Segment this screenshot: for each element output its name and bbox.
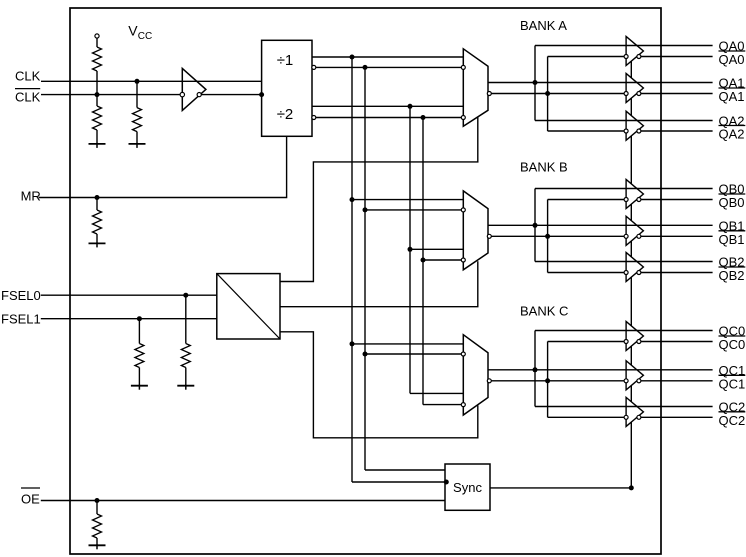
mux BANK A — [463, 49, 488, 127]
node Sync in2 — [444, 480, 449, 485]
svg-text:FSEL0: FSEL0 — [1, 288, 41, 303]
divider block U1 (div1 / div2) — [262, 40, 312, 136]
output buffer QB0 — [626, 179, 643, 208]
wire QB2 complement branch — [548, 272, 713, 274]
wire bank A comp branch vertical — [547, 57, 549, 132]
label QA0 — [719, 39, 745, 54]
wire QB1 complement (mux B output comp) — [488, 235, 713, 237]
buffer QA1 inversion bubbles — [624, 92, 641, 96]
node CLKb pull junction — [95, 92, 100, 97]
node CLK pull junction — [135, 79, 140, 84]
svg-text:BANK C: BANK C — [520, 304, 568, 319]
node bank C comp branch — [545, 378, 550, 383]
resistor: pull-down on MR — [93, 198, 102, 244]
label QB2 bar — [719, 267, 746, 283]
svg-text:QC0: QC0 — [719, 337, 746, 352]
node div2T branch — [408, 104, 413, 109]
wire QC1 complement (mux C output comp) — [488, 380, 713, 382]
wire CLK input line — [41, 80, 262, 82]
label BANK C — [520, 304, 568, 319]
label QC1 — [719, 363, 746, 378]
svg-text:CC: CC — [138, 31, 152, 42]
node bank A true branch — [533, 80, 538, 85]
node mux C in2 tap — [363, 352, 368, 357]
wire QB0 complement branch — [548, 199, 713, 201]
wire bank A true branch vertical — [534, 46, 536, 121]
label QC2 bar — [719, 412, 746, 428]
wire bank B select from decoder — [280, 261, 478, 306]
resistor: pull-down on CLK — [133, 81, 142, 144]
wire QB2 true branch — [535, 261, 713, 263]
wire QA2 true branch — [535, 120, 713, 122]
node bank C true branch — [533, 367, 538, 372]
label QA1 bar — [719, 88, 746, 104]
mux B inverted output bubble — [487, 234, 491, 238]
wire bank B true branch vertical — [534, 189, 536, 262]
wire div1 comp distribution: to mux A, mux B, mux C, Sync — [316, 67, 461, 470]
wire OE input line to Sync — [41, 500, 445, 502]
node FSEL1 pull junction — [137, 316, 142, 321]
label FSEL1 — [1, 312, 41, 327]
wire QA0 true branch — [535, 45, 713, 47]
wire QA2 complement branch — [548, 130, 713, 132]
svg-text:QC2: QC2 — [719, 413, 746, 428]
wire FSEL1 input line — [41, 318, 217, 320]
svg-text:OE: OE — [21, 492, 40, 507]
node mux B in4 tap — [421, 258, 426, 263]
Vcc pull-up terminal circle — [95, 34, 99, 38]
label CLK bar — [15, 89, 41, 105]
output buffer QA1 — [626, 73, 643, 102]
svg-text:BANK B: BANK B — [520, 160, 568, 175]
buffer QA2 inversion bubbles — [624, 129, 641, 133]
node OE pull junction — [95, 498, 100, 503]
receiver input inversion bubble — [180, 92, 184, 96]
output buffer QB1 — [626, 216, 643, 245]
node bank B true branch — [533, 223, 538, 228]
mux BANK C — [463, 335, 488, 415]
resistor: pull-down on FSEL0 — [181, 295, 190, 386]
wire QB1 true (mux B output) — [488, 224, 713, 226]
buffer QC2 inversion bubbles — [624, 415, 641, 419]
buffer QB1 inversion bubbles — [624, 234, 641, 238]
label QB1 — [719, 218, 745, 233]
output buffer QB2 — [626, 252, 643, 281]
label QA2 — [719, 114, 745, 129]
wire QA0 complement branch — [548, 56, 713, 58]
ground — [89, 544, 106, 549]
node bank B comp branch — [545, 234, 550, 239]
wire div2 true distribution: to mux A, mux B, mux C — [312, 106, 463, 393]
output buffer QA0 — [626, 36, 643, 65]
wire QC1 true (mux C output) — [488, 369, 713, 371]
ground — [89, 242, 106, 247]
wire QC0 true branch — [535, 330, 713, 332]
wire QB0 true branch — [535, 188, 713, 190]
wire div1 true distribution: to mux A, mux B, mux C, Sync — [312, 57, 463, 482]
buffer QB2 inversion bubbles — [624, 271, 641, 275]
svg-text:QA2: QA2 — [719, 127, 745, 142]
resistor: pull-down on CLKb — [93, 95, 102, 144]
ground — [177, 385, 194, 390]
label BANK A — [520, 18, 567, 33]
node mux C in1 tap — [350, 341, 355, 346]
FSEL decoder block — [217, 274, 280, 339]
svg-text:÷1: ÷1 — [277, 52, 294, 69]
label FSEL0 — [1, 288, 41, 303]
label QA2 bar — [719, 126, 746, 142]
svg-text:÷2: ÷2 — [277, 106, 294, 123]
svg-text:CLK: CLK — [15, 90, 41, 105]
Sync block — [445, 464, 490, 510]
label MR — [21, 189, 41, 204]
svg-text:BANK A: BANK A — [520, 18, 567, 33]
resistor: pull-down on OE — [93, 501, 102, 546]
label CLK — [15, 69, 41, 84]
wire QA1 true (mux A output) — [488, 82, 713, 84]
svg-text:MR: MR — [21, 189, 41, 204]
label QB0 bar — [719, 194, 746, 210]
wire QA1 complement (mux A output comp) — [488, 93, 713, 95]
label QB2 — [719, 255, 745, 270]
node bank A comp branch — [545, 91, 550, 96]
wire div2 comp distribution: to mux A, mux B, mux C — [316, 118, 461, 405]
wire MR input line to divider — [39, 136, 287, 197]
wire QC2 true branch — [535, 406, 713, 408]
wire bank C select from decoder — [280, 332, 478, 438]
wire bank C true branch vertical — [534, 331, 536, 407]
node div2C branch — [421, 115, 426, 120]
label QC0 — [719, 324, 746, 339]
label QA1 — [719, 76, 745, 91]
node div1C branch — [363, 65, 368, 70]
node MR pull junction — [95, 195, 100, 200]
wire bank A select from decoder — [280, 117, 478, 282]
label QC0 bar — [719, 336, 746, 352]
wire FSEL0 input line — [41, 294, 217, 296]
divider div2 comp output bubble — [312, 116, 316, 120]
wire QC0 complement branch — [548, 341, 713, 343]
svg-text:QB0: QB0 — [719, 195, 745, 210]
svg-text:V: V — [128, 23, 138, 39]
output buffer QC1 — [626, 361, 643, 390]
node enable corner — [629, 485, 634, 490]
ground — [131, 385, 148, 390]
buffer QC0 inversion bubbles — [624, 340, 641, 344]
label QB0 — [719, 182, 745, 197]
output buffer QC2 — [626, 397, 643, 426]
receiver output inversion bubble — [197, 93, 201, 97]
mux A inverted input bubbles — [461, 65, 465, 119]
buffer QB0 inversion bubbles — [624, 198, 641, 202]
buffer QC1 inversion bubbles — [624, 379, 641, 383]
ground — [89, 143, 106, 148]
mux C inverted input bubbles — [461, 352, 465, 407]
wire bank B comp branch vertical — [547, 200, 549, 273]
output buffer QA2 — [626, 111, 643, 140]
buffer QA0 inversion bubbles — [624, 55, 641, 59]
label QC2 — [719, 400, 746, 415]
label OE bar — [21, 488, 40, 507]
wire QC2 complement branch — [548, 416, 713, 418]
differential clock receiver buffer — [182, 68, 206, 110]
svg-text:CLK: CLK — [15, 69, 41, 84]
resistor: pull-down on FSEL1 — [135, 319, 144, 386]
output buffer QC0 — [626, 321, 643, 350]
label QB1 bar — [719, 231, 746, 247]
IC outline box — [70, 8, 661, 554]
svg-text:QC1: QC1 — [719, 376, 746, 391]
wire bank C comp branch vertical — [547, 342, 549, 418]
mux C inverted output bubble — [487, 379, 491, 383]
ground — [129, 143, 146, 148]
svg-text:FSEL1: FSEL1 — [1, 312, 41, 327]
mux BANK B — [463, 191, 488, 270]
svg-text:QA0: QA0 — [719, 52, 745, 67]
node div1T branch — [350, 55, 355, 60]
node FSEL0 pull junction — [183, 293, 188, 298]
wire Sync output to buffer enable rail — [490, 487, 631, 489]
label BANK B — [520, 160, 568, 175]
svg-text:Sync: Sync — [453, 480, 482, 495]
mux B inverted input bubbles — [461, 208, 465, 262]
label QC1 bar — [719, 375, 746, 391]
wire CLKb input line — [41, 94, 262, 96]
svg-text:QB1: QB1 — [719, 232, 745, 247]
label Vcc — [128, 23, 152, 43]
svg-text:QA1: QA1 — [719, 89, 745, 104]
node mux B in2 tap — [363, 207, 368, 212]
label QA0 bar — [719, 51, 746, 67]
node receiver comp to divider — [259, 92, 264, 97]
wire output enable vertical from Sync — [630, 61, 632, 488]
svg-text:QB2: QB2 — [719, 268, 745, 283]
node mux B in1 tap — [350, 197, 355, 202]
resistor: pull-up on CLKb — [93, 38, 102, 95]
divider div1 comp output bubble — [312, 65, 316, 69]
mux A inverted output bubble — [487, 92, 491, 96]
node mux B in3 tap — [408, 247, 413, 252]
